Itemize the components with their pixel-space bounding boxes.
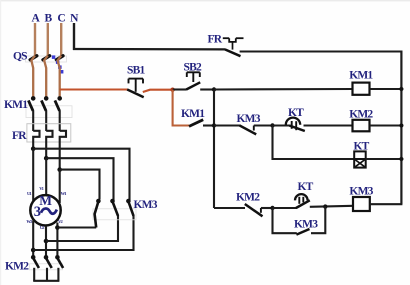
wire SB2 to node B (200, 88, 214, 90)
wire W2 tap to KM3 pole 3 (33, 216, 133, 251)
wire phase A below QS (31, 56, 35, 97)
wire neutral to FR contact (73, 48, 225, 51)
contact KT NO delayed closing (295, 194, 310, 208)
node junction U1 feed (31, 146, 36, 151)
wire page left edge artifact (0, 0, 1, 285)
contactor KM2 main pole 1 (31, 255, 39, 281)
wire row1 node B to KM1 coil (214, 88, 353, 91)
wire delta link 2 to KM3 pole 2 (46, 158, 113, 200)
svg-text:KM3: KM3 (134, 199, 158, 211)
contactor KM3 main pole 3 (126, 199, 133, 216)
wire V2 tap to KM3 pole 1 (57, 226, 96, 228)
contact KT NC delayed opening (286, 118, 305, 131)
wire node B vertical (213, 90, 215, 209)
node junction V1 feed (44, 156, 49, 161)
wire V1 down to motor (45, 158, 47, 195)
wire KT coil to bus (366, 158, 402, 160)
node bus row1 junction (399, 87, 403, 91)
node junction C (270, 123, 274, 127)
wire KM3 NC to junction C (254, 124, 273, 126)
node junction E rejoin (323, 204, 327, 208)
wire W1 down to motor (59, 170, 61, 203)
relay KT time coil (354, 151, 366, 167)
node B junction (212, 87, 216, 91)
switch QS blade pole 2 (43, 56, 50, 60)
wire KM2 star point bus (33, 280, 59, 282)
svg-text:KM1: KM1 (181, 108, 205, 120)
wire FR contact to right bus (240, 50, 403, 52)
wire SB1 to node A (143, 90, 173, 92)
wire V2 motor down to KM2 pole 3 (56, 223, 58, 258)
wire node A vertical self hold branch (173, 90, 190, 126)
svg-text:KM2: KM2 (236, 192, 260, 204)
wire neutral N vertical (73, 23, 75, 50)
wire row2 to KM3 NC (214, 124, 240, 126)
contactor KM2 main pole 3 (55, 255, 63, 281)
switch QS mechanical link dashed (52, 55, 64, 73)
node junction W1 feed (57, 167, 62, 172)
wire U1 down to motor (32, 149, 34, 201)
node junction W2 tap (31, 248, 36, 253)
wire KM1 aux to node B (203, 124, 214, 126)
wire junction C down to KT coil (273, 126, 355, 160)
contact KM2 NC interlock (245, 204, 263, 216)
wire phase C below QS (58, 56, 62, 97)
svg-text:B: B (44, 13, 52, 25)
wire KT NC to KM2 coil (304, 124, 354, 126)
wire KM2 coil to bus (370, 124, 402, 126)
pushbutton SB1 stop NC (127, 79, 144, 98)
svg-text:3: 3 (34, 204, 41, 220)
svg-text:KT: KT (298, 181, 314, 193)
coil KM3 (353, 197, 370, 211)
svg-text:M: M (39, 193, 52, 208)
contactor KM3 main pole 1 (95, 199, 101, 228)
contact KM3 NO self hold (296, 229, 309, 235)
node junction U2 tap (44, 239, 49, 244)
contact KM1 auxiliary NO (189, 120, 203, 127)
svg-text:QS: QS (13, 51, 27, 63)
coil KM2 (353, 120, 370, 132)
svg-text:FR: FR (12, 130, 27, 142)
contactor KM1 main pole 1 (28, 96, 35, 131)
contactor KM2 main pole 2 (44, 255, 52, 281)
switch QS blade pole 1 (30, 56, 37, 60)
coil KM1 (353, 83, 370, 95)
wire page top edge artifact (0, 0, 410, 1)
svg-text:SB1: SB1 (127, 65, 145, 77)
wire junction D down KM3 self hold branch (273, 208, 297, 233)
svg-text:KM1: KM1 (4, 99, 28, 111)
wire U2 tap to KM3 pole 2 (46, 216, 118, 242)
thermal relay FR heater element 1 (33, 131, 39, 149)
svg-text:KM1: KM1 (349, 70, 373, 82)
wire KT NO to KM3 coil (310, 206, 353, 207)
pushbutton SB2 start NO (186, 72, 200, 89)
node A junction (170, 88, 174, 92)
thermal relay FR heater element 2 (46, 131, 52, 158)
faint box around KM3 contacts (93, 209, 136, 220)
wire phase B below QS (44, 56, 48, 97)
wire delta link 3 to KM3 pole 1 (60, 170, 100, 200)
svg-text:KM3: KM3 (237, 113, 261, 125)
motor tilde (41, 209, 57, 214)
svg-text:FR: FR (208, 34, 223, 46)
thermal relay FR NC contact (223, 38, 244, 56)
wire KM1 coil to bus (370, 88, 402, 90)
wire phase A vertical (34, 23, 36, 56)
svg-text:C: C (57, 13, 65, 25)
node junction V2 tap (55, 225, 60, 230)
wire phase B vertical (47, 23, 49, 56)
thermal relay FR heater element 3 (60, 131, 66, 170)
wire row3 from node B (214, 207, 245, 209)
wire right bus vertical (400, 52, 402, 205)
faint box around QS (26, 56, 67, 62)
wire W2 motor down to KM2 pole 1 (32, 221, 34, 258)
wire phase C vertical (60, 23, 62, 56)
contactor KM3 main pole 2 (110, 199, 118, 216)
wire KM3 NO up to row3 (311, 206, 325, 233)
wire KM3 coil to bus corner (370, 203, 403, 205)
contactor KM1 main pole 3 (55, 96, 62, 131)
node junction D (270, 206, 274, 210)
svg-text:KM2: KM2 (349, 108, 373, 120)
wire KM2 NC to junction D (261, 207, 273, 209)
motor M circle (30, 195, 60, 225)
switch QS blade pole 3 (56, 56, 63, 60)
faint box around KM2 contacts (30, 264, 63, 270)
node row2 junction at B (212, 123, 216, 127)
svg-text:KM3: KM3 (349, 185, 373, 197)
wire node A to SB2 (173, 88, 187, 90)
contactor KM1 main pole 2 (41, 96, 48, 131)
wire U2 motor down to KM2 pole 2 (45, 226, 47, 257)
wire delta link 1 to KM3 pole 3 (33, 149, 129, 200)
faint box around KM1 main contacts (26, 106, 72, 118)
svg-text:KM3: KM3 (294, 219, 318, 231)
node bus row2 junction (399, 123, 403, 127)
wire junction D to KT NO (273, 207, 297, 209)
node bus KT junction (399, 157, 403, 161)
contact KM3 NC interlock (239, 125, 256, 134)
thermal relay FR box (27, 124, 71, 142)
wire control tap from phase C (60, 88, 128, 90)
wire junction C to KT NC (273, 124, 290, 126)
svg-text:KM2: KM2 (5, 260, 29, 272)
